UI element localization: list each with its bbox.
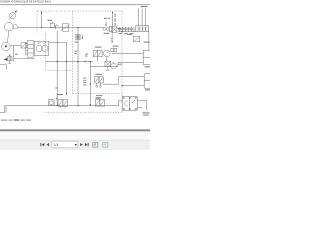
svg-text:SCHEMA HYDRAULIQUE DE LA PELLE: SCHEMA HYDRAULIQUE DE LA PELLE 890 A — [0, 0, 51, 4]
svg-text:1/4: 1/4 — [53, 143, 58, 147]
